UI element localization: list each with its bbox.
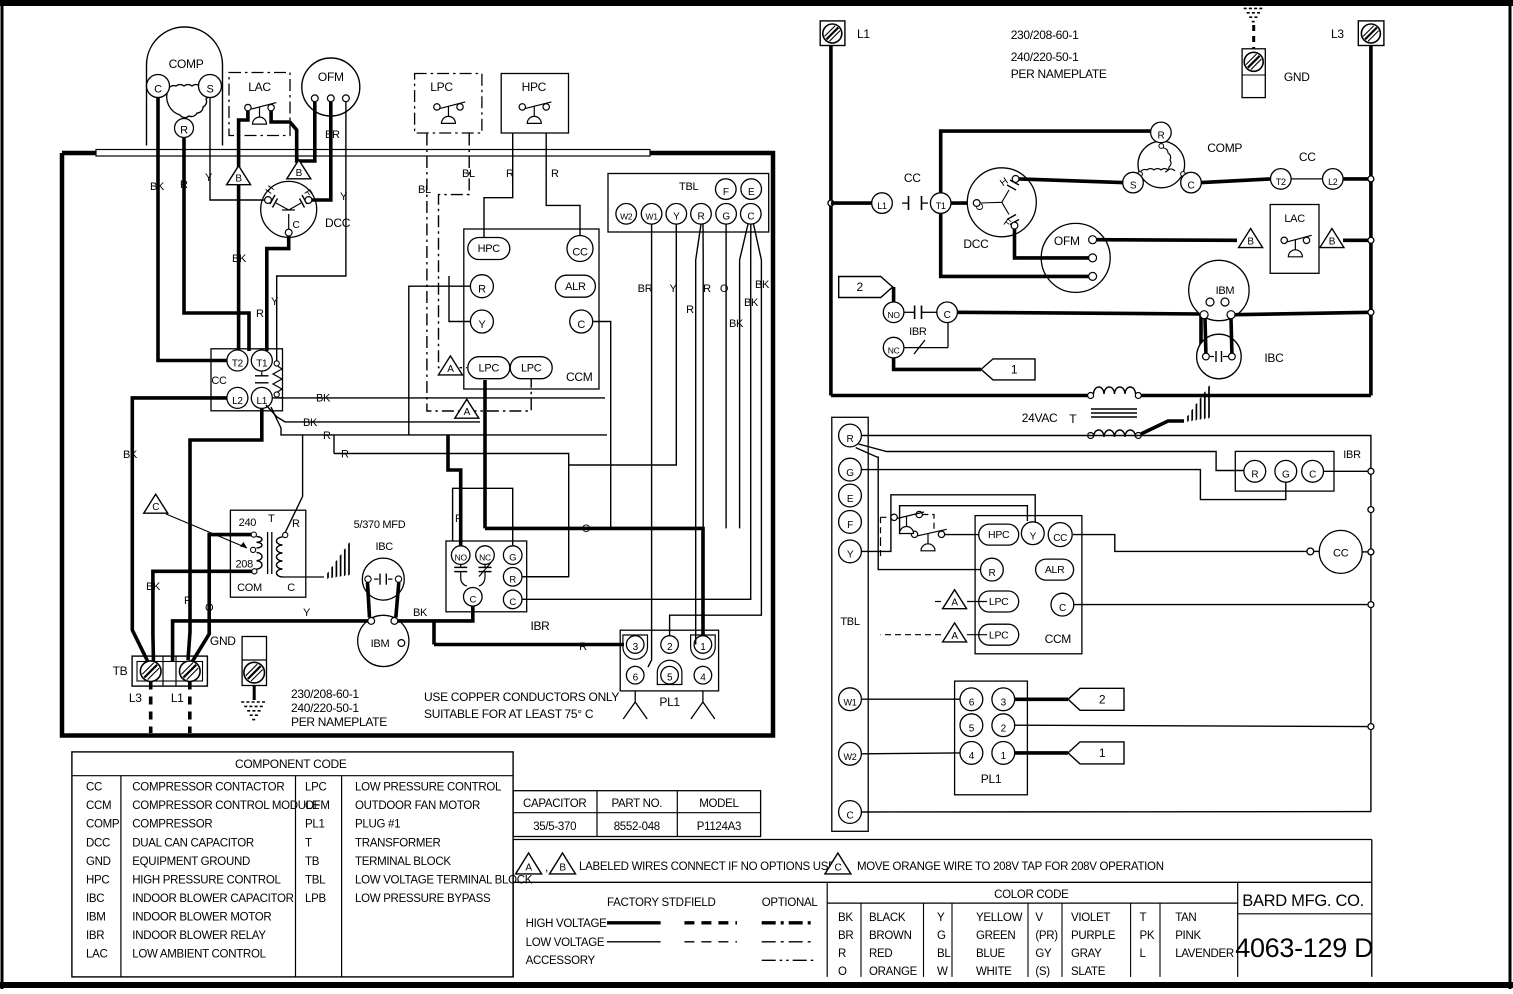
svg-text:R: R (506, 168, 514, 180)
PL1 strain relief left (623, 691, 647, 719)
svg-text:5: 5 (969, 724, 975, 735)
svg-text:OUTDOOR FAN MOTOR: OUTDOOR FAN MOTOR (355, 800, 480, 812)
svg-text:IBM: IBM (371, 638, 390, 650)
IBR terminal R (503, 568, 522, 587)
transformer T (230, 510, 305, 597)
wire IBR C to bus (1324, 470, 1371, 472)
svg-text:CAPACITOR: CAPACITOR (523, 798, 586, 810)
svg-text:C: C (577, 319, 585, 331)
triangle A lower right (943, 623, 967, 642)
svg-text:BROWN: BROWN (869, 930, 912, 942)
svg-text:BR: BR (838, 930, 853, 942)
svg-text:Y: Y (340, 191, 348, 203)
svg-text:L2: L2 (232, 396, 243, 407)
svg-text:COMPRESSOR CONTACTOR: COMPRESSOR CONTACTOR (132, 782, 284, 794)
indoor blower relay IBR (446, 541, 527, 612)
ground symbol right of transformer (328, 543, 349, 578)
svg-text:L3: L3 (1331, 27, 1344, 41)
svg-text:INDOOR BLOWER CAPACITOR: INDOOR BLOWER CAPACITOR (132, 893, 293, 905)
CC contact T2-L2 link (1291, 178, 1322, 180)
CCM right R (981, 558, 1004, 581)
svg-text:TRANSFORMER: TRANSFORMER (355, 837, 441, 849)
CC contact T1 right (930, 193, 951, 214)
indoor blower capacitor IBC (362, 558, 404, 600)
PL1 pin 5 (657, 660, 682, 684)
field wiring L3 (149, 682, 153, 734)
svg-text:6: 6 (633, 673, 639, 684)
indoor blower motor IBM (358, 615, 409, 666)
svg-text:Y: Y (847, 550, 854, 561)
svg-text:HPC: HPC (988, 529, 1010, 541)
PL1 right 3 (992, 688, 1015, 711)
svg-text:A: A (464, 407, 471, 418)
svg-text:CC: CC (1053, 533, 1067, 544)
svg-text:NC: NC (888, 346, 900, 356)
triangle A at LPC pill (438, 356, 462, 375)
svg-text:OFM: OFM (1054, 234, 1080, 248)
svg-text:GND: GND (86, 856, 111, 868)
svg-text:ALR: ALR (1045, 564, 1065, 576)
svg-text:GRAY: GRAY (1071, 948, 1102, 960)
indoor blower motor IBM right (1189, 260, 1249, 320)
svg-text:O: O (720, 283, 729, 295)
svg-text:C: C (1309, 469, 1316, 480)
svg-text:IBR: IBR (86, 930, 104, 942)
svg-text:CCM: CCM (566, 370, 593, 384)
svg-text:T: T (1069, 412, 1077, 426)
svg-text:A: A (951, 598, 958, 609)
svg-text:FIELD: FIELD (684, 897, 715, 909)
wire R riser to IBR NO (448, 435, 461, 546)
svg-text:R: R (292, 518, 300, 530)
wire C to IBM (957, 312, 1201, 352)
IBR capacitor NO leg (460, 564, 462, 567)
CCM right C (1051, 593, 1074, 616)
svg-text:L3: L3 (129, 691, 142, 705)
svg-text:BARD MFG. CO.: BARD MFG. CO. (1242, 892, 1364, 910)
wire pin2 to bus (1015, 725, 1371, 726)
svg-text:2: 2 (857, 280, 864, 294)
svg-text:BK: BK (146, 581, 161, 593)
svg-text:A: A (525, 863, 532, 874)
flag 1 right (1068, 742, 1124, 764)
svg-text:B: B (1329, 236, 1336, 247)
svg-text:5/370 MFD: 5/370 MFD (354, 519, 406, 531)
wire flag2 to NO (892, 287, 896, 302)
red row to PL1-3 (434, 643, 624, 647)
CC terminal L1 (251, 387, 272, 408)
svg-text:R: R (184, 595, 192, 607)
svg-text:GY: GY (1035, 948, 1052, 960)
transformer ground lead (283, 576, 325, 578)
svg-text:B: B (1247, 236, 1254, 247)
field wiring L1 (188, 682, 192, 734)
svg-text:208: 208 (235, 559, 253, 571)
svg-text:T: T (1140, 912, 1147, 924)
svg-text:ACCESSORY: ACCESSORY (526, 955, 596, 967)
svg-text:BLUE: BLUE (976, 948, 1005, 960)
wire BL LPC-left (427, 134, 531, 412)
PL1 pin 6 (626, 666, 644, 684)
wire pin3 to flag2 (1015, 697, 1068, 701)
wire BK from CC L1 lower (266, 405, 480, 422)
wire BK C riser 1 (740, 224, 748, 528)
svg-text:COM: COM (237, 582, 262, 594)
svg-text:TBL: TBL (305, 874, 326, 886)
wire L2 to TB L3 (132, 398, 227, 662)
wire pin1 to flag1 (1015, 751, 1068, 755)
svg-text:A: A (951, 631, 958, 642)
svg-text:LOW VOLTAGE TERMINAL BLOCK: LOW VOLTAGE TERMINAL BLOCK (355, 874, 533, 886)
svg-text:CC: CC (1299, 150, 1316, 164)
CCM terminal ALR (555, 275, 595, 297)
compressor contactor CC (211, 349, 283, 411)
wire T1 down to OFM (941, 213, 1089, 276)
svg-text:SUITABLE FOR AT LEAST 75° C: SUITABLE FOR AT LEAST 75° C (424, 707, 594, 721)
svg-text:OFM: OFM (305, 800, 330, 812)
svg-text:O: O (205, 602, 214, 614)
svg-text:24VAC: 24VAC (1022, 411, 1058, 425)
svg-text:C: C (293, 220, 300, 231)
triangle B left of LAC right (1239, 229, 1263, 248)
svg-text:T: T (268, 513, 275, 525)
TBL terminal E (741, 179, 762, 200)
secondary ground lead (1141, 421, 1184, 434)
svg-text:R: R (256, 308, 264, 320)
svg-text:L1: L1 (857, 27, 870, 41)
wire T1 up to COMP R (941, 131, 1151, 193)
COMP winding (167, 84, 209, 117)
orange row to PL1-1 (485, 528, 703, 640)
TBL terminal Y (666, 204, 687, 225)
svg-text:PL1: PL1 (981, 772, 1002, 786)
svg-text:O: O (838, 966, 847, 978)
wire R from COMP R to CC T1 (184, 138, 249, 352)
svg-text:LAC: LAC (86, 949, 107, 961)
svg-text:W2: W2 (620, 212, 633, 222)
svg-text:C: C (944, 310, 951, 321)
svg-text:230/208-60-1: 230/208-60-1 (291, 687, 359, 701)
svg-text:COLOR CODE: COLOR CODE (994, 889, 1069, 901)
TB screw L1 (180, 661, 201, 682)
svg-text:1: 1 (1099, 746, 1106, 760)
svg-text:5: 5 (667, 673, 673, 684)
svg-text:PLUG #1: PLUG #1 (355, 819, 400, 831)
svg-text:L1: L1 (171, 691, 184, 705)
svg-text:PL1: PL1 (305, 819, 325, 831)
svg-text:ORANGE: ORANGE (869, 966, 918, 978)
svg-text:WHITE: WHITE (976, 966, 1012, 978)
terminal L1 (820, 21, 845, 46)
svg-text:G: G (509, 553, 516, 564)
svg-text:BL: BL (937, 948, 951, 960)
svg-text:BK: BK (316, 393, 331, 405)
svg-text:COMP: COMP (86, 819, 120, 831)
svg-text:INDOOR BLOWER RELAY: INDOOR BLOWER RELAY (132, 930, 266, 942)
wire BR W1 to PL1-6 (648, 224, 652, 667)
svg-text:R: R (1157, 130, 1164, 141)
wire W1 to pin6 (861, 698, 960, 700)
svg-text:1: 1 (700, 642, 706, 653)
wire C CCM to bus (1074, 604, 1371, 606)
equipment ground GND right (1242, 49, 1265, 98)
svg-text:1: 1 (1011, 362, 1018, 376)
svg-text:LAC: LAC (1284, 213, 1305, 225)
svg-text:T1: T1 (256, 358, 268, 369)
svg-text:YELLOW: YELLOW (976, 912, 1023, 924)
svg-text:PER NAMEPLATE: PER NAMEPLATE (291, 715, 387, 729)
HPC switch (519, 102, 551, 124)
TBL Y (839, 540, 862, 563)
svg-text:BK: BK (755, 279, 770, 291)
wire secondary R riser (285, 435, 302, 533)
low ambient control LAC (229, 73, 290, 136)
COMP terminal S (199, 75, 222, 98)
svg-text:1: 1 (1001, 751, 1007, 762)
hollow raceway bar (96, 150, 650, 157)
PL1 pin 3 (623, 635, 648, 659)
svg-text:IBR: IBR (909, 326, 927, 338)
wire DCC F to OFM (1015, 229, 1089, 258)
svg-text:COMPRESSOR CONTROL MODULE: COMPRESSOR CONTROL MODULE (132, 800, 320, 812)
svg-text:IBC: IBC (375, 541, 393, 553)
wire R rung to secondary (861, 436, 1371, 812)
svg-text:PURPLE: PURPLE (1071, 930, 1116, 942)
TBL F (839, 511, 862, 534)
outdoor fan motor OFM (302, 58, 360, 116)
color code table (827, 902, 1237, 904)
TB screw L3 (140, 661, 161, 682)
CCM terminal Y (470, 310, 493, 333)
svg-text:LPC: LPC (989, 629, 1009, 641)
svg-text:L: L (1140, 948, 1147, 960)
svg-text:LABELED WIRES CONNECT IF NO OP: LABELED WIRES CONNECT IF NO OPTIONS USED… (579, 861, 846, 873)
CC contact symbol (255, 371, 269, 383)
svg-text:R: R (478, 284, 486, 296)
svg-text:CC: CC (1333, 548, 1349, 560)
svg-text:R: R (838, 948, 846, 960)
svg-text:T: T (305, 837, 312, 849)
TBL W2 (839, 742, 862, 765)
wire IBC to IBM left (368, 583, 370, 618)
COMP right terminal S (1123, 172, 1144, 193)
svg-text:L2: L2 (1328, 177, 1338, 187)
svg-text:BR: BR (638, 283, 653, 295)
svg-text:OPTIONAL: OPTIONAL (762, 897, 819, 909)
TBL W1 (839, 688, 862, 711)
LPC bypass dashed switch (881, 511, 935, 560)
wire LAC-right to OFM via triangle B (271, 102, 315, 161)
svg-text:COMPRESSOR: COMPRESSOR (132, 819, 212, 831)
IBR terminal C inner (464, 588, 483, 607)
flag 1 left (981, 359, 1035, 380)
svg-text:F: F (723, 187, 729, 198)
wire L1 to TB L1 red (188, 409, 262, 661)
svg-text:DCC: DCC (963, 237, 989, 251)
svg-text:PINK: PINK (1175, 930, 1201, 942)
svg-text:R: R (180, 179, 188, 191)
svg-text:R: R (847, 434, 854, 445)
wire OFM to LAC (1097, 238, 1237, 242)
right rail (1369, 46, 1373, 396)
svg-text:IBC: IBC (1264, 351, 1284, 365)
svg-text:IBC: IBC (86, 893, 104, 905)
IBR terminal NO (451, 546, 470, 565)
CC terminal T1 (251, 350, 272, 371)
capacitor table (513, 791, 761, 837)
svg-text:6: 6 (969, 698, 975, 709)
svg-text:2: 2 (667, 642, 673, 653)
wire 208 tap black (153, 571, 252, 662)
svg-text:P1124A3: P1124A3 (697, 821, 741, 833)
COMP terminal R (175, 119, 194, 138)
24VAC secondary (1088, 433, 1094, 439)
svg-text:G: G (846, 468, 854, 479)
wire rail to CC L1 (828, 200, 834, 206)
HPC cutout switch right (911, 529, 946, 551)
svg-text:NC: NC (479, 553, 491, 563)
triangle C note (825, 853, 851, 874)
triangle B right (287, 160, 311, 179)
svg-text:(PR): (PR) (1035, 930, 1058, 942)
svg-text:TBL: TBL (840, 616, 859, 628)
svg-text:S: S (206, 83, 213, 95)
CCM right LPC1 (979, 591, 1019, 612)
wire R row upper (271, 407, 607, 435)
TBL C right (839, 801, 862, 824)
svg-text:35/5-370: 35/5-370 (533, 821, 576, 833)
wire G rung (861, 470, 1285, 500)
svg-text:Y: Y (205, 172, 213, 184)
wire T1 to DCC (951, 201, 973, 205)
CCM right ALR (1036, 559, 1074, 580)
triangle A on LPC bypass (455, 399, 479, 418)
dual can capacitor DCC right (963, 168, 1036, 251)
CC contact bars right (902, 171, 928, 210)
svg-text:COMP: COMP (169, 57, 204, 71)
wire L2 to rail (1343, 177, 1371, 181)
svg-text:BK: BK (729, 318, 744, 330)
svg-text:HPC: HPC (522, 80, 547, 94)
svg-text:HPC: HPC (86, 874, 109, 886)
CC terminal L2 (227, 387, 248, 408)
GND earth symbol (253, 686, 256, 701)
wire R HPC-right to CC pill (546, 134, 580, 236)
low ambient control LAC right (1270, 205, 1319, 274)
IBR G hook wire (453, 488, 513, 546)
GND chassis symbol top (1241, 4, 1267, 22)
svg-text:BK: BK (744, 297, 759, 309)
wire IBM to rail (1235, 312, 1371, 314)
line style legend (826, 882, 828, 977)
terminal L3 (1358, 21, 1384, 46)
svg-text:4: 4 (700, 673, 706, 684)
TBL terminal W2 (616, 204, 637, 225)
compressor COMP right (1138, 141, 1242, 188)
svg-text:BK: BK (150, 181, 165, 193)
CC contact L1 right (872, 193, 893, 214)
IBR NO contact (883, 302, 904, 323)
svg-text:Y: Y (673, 212, 680, 223)
svg-text:A: A (447, 364, 454, 375)
svg-text:VIOLET: VIOLET (1071, 912, 1110, 924)
svg-text:GND: GND (210, 634, 236, 648)
GND screw (244, 662, 265, 683)
svg-text:W: W (937, 966, 948, 978)
triangle B note (550, 853, 576, 874)
svg-text:Y: Y (669, 283, 677, 295)
svg-text:BL: BL (418, 184, 431, 196)
PL1 right 5 (960, 714, 983, 737)
svg-text:CC: CC (86, 782, 102, 794)
IBR terminal C right (503, 590, 522, 609)
svg-text:DUAL CAN CAPACITOR: DUAL CAN CAPACITOR (132, 837, 254, 849)
wire LAC to rail (1343, 239, 1371, 243)
svg-text:R: R (551, 168, 559, 180)
svg-text:G: G (937, 930, 946, 942)
wire CCM R riser (409, 286, 471, 435)
wire IBR R to riser (522, 576, 569, 578)
wire BK from CC L1 (273, 397, 283, 399)
CCM terminal LPC2 (510, 357, 552, 379)
svg-text:SLATE: SLATE (1071, 966, 1106, 978)
wire W2 to pin4 (861, 752, 960, 755)
CCM right CC (1048, 523, 1072, 547)
CC coil (273, 361, 282, 397)
wire BK from IBM to IBR C (398, 605, 473, 621)
TBL E (839, 484, 862, 507)
svg-text:LPC: LPC (305, 782, 326, 794)
wire HPC switch loop (900, 506, 1028, 535)
CCM terminal LPC1 (468, 357, 510, 379)
triangle B left (227, 166, 251, 185)
transformer secondary coil (283, 532, 288, 537)
IBR module C (1302, 460, 1324, 482)
transformer primary coil (251, 532, 258, 574)
svg-text:T1: T1 (936, 201, 946, 211)
COMP right terminal R (1151, 122, 1172, 143)
svg-text:IBR: IBR (530, 619, 550, 633)
PL1 pin 2 (661, 636, 679, 654)
svg-text:G: G (722, 212, 730, 223)
triangle C note pointer (144, 494, 168, 513)
IBR capacitor NC leg (484, 564, 486, 567)
IBR NC contact (883, 337, 904, 358)
IBR terminal G (503, 546, 522, 565)
svg-text:LOW AMBIENT CONTROL: LOW AMBIENT CONTROL (132, 949, 266, 961)
wire IBM to IBC right (1229, 319, 1234, 354)
svg-text:NO: NO (888, 310, 901, 320)
CCM terminal HPC (468, 238, 510, 260)
svg-text:LPB: LPB (305, 893, 326, 905)
svg-text:LPC: LPC (521, 362, 542, 374)
CCM box right (975, 516, 1082, 654)
svg-text:PER NAMEPLATE: PER NAMEPLATE (1011, 67, 1107, 81)
svg-text:LPC: LPC (989, 596, 1009, 608)
IBR module box right (1235, 451, 1334, 491)
CCM right HPC (979, 524, 1019, 545)
wire BL LPC-right (439, 134, 470, 368)
CCM right Y (1021, 522, 1044, 545)
svg-text:B: B (296, 168, 303, 179)
wire DCC H to COMP S (1019, 179, 1123, 183)
svg-text:LOW PRESSURE CONTROL: LOW PRESSURE CONTROL (355, 782, 502, 794)
svg-text:G: G (1282, 469, 1290, 480)
wire Y from OFM right to CC coil (277, 102, 346, 362)
compressor control module CCM (464, 229, 599, 389)
svg-text:COMP: COMP (1207, 141, 1242, 155)
bottom rail left segment (831, 394, 1088, 398)
